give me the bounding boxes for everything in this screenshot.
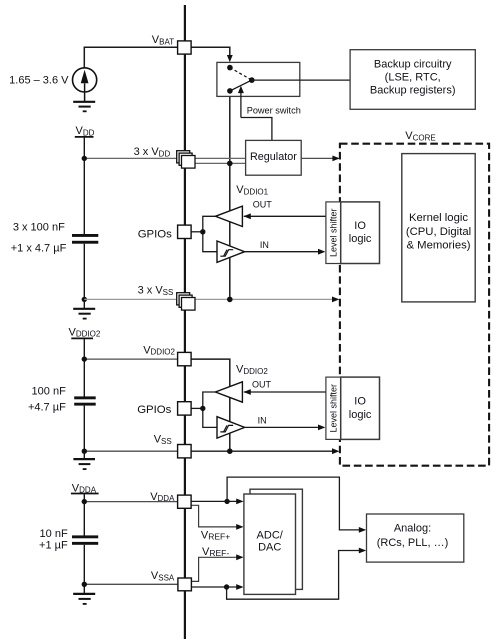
svg-text:VSSA: VSSA [151, 570, 175, 582]
arrowhead VSS into VCORE [332, 448, 339, 454]
wire VSSA to pin [84, 583, 178, 585]
wire VREF+ [191, 505, 238, 527]
ground below C2 [73, 459, 95, 469]
VDD rail down to capacitor [83, 137, 85, 234]
junction GPIO1 [200, 229, 205, 234]
svg-text:3 x VDD: 3 x VDD [134, 146, 171, 158]
svg-text:VBAT: VBAT [152, 34, 174, 46]
svg-text:Level shifter: Level shifter [329, 208, 339, 257]
svg-text:OUT: OUT [252, 379, 272, 389]
junction VDD rail [82, 156, 87, 161]
IO logic 1 box [341, 202, 380, 264]
svg-text:logic: logic [349, 233, 372, 245]
arrowhead OUT1 [243, 213, 250, 219]
wire OUT2 from level shifter [244, 391, 326, 393]
svg-text:(LSE, RTC,: (LSE, RTC, [385, 71, 441, 83]
junction VDDA bypass [224, 499, 229, 504]
svg-text:Backup registers): Backup registers) [370, 84, 456, 96]
svg-text:VSS: VSS [154, 434, 172, 446]
wire IN2 to level shifter [245, 426, 320, 428]
level shifter 1 box [326, 202, 341, 264]
VCORE dashed domain box [340, 144, 489, 466]
kernel logic box [402, 154, 475, 302]
wire VSSA pin to ADC [191, 586, 238, 588]
svg-text:Power switch: Power switch [247, 106, 301, 116]
svg-text:VREF-: VREF- [202, 546, 229, 558]
pin VSSA [178, 578, 192, 591]
junction VSSA bypass [224, 584, 229, 589]
arrowhead IN2 [318, 425, 325, 431]
svg-text:10 nF: 10 nF [40, 528, 68, 540]
voltage source 1.65-3.6 V [73, 68, 97, 102]
arrowhead VREF- into ADC [236, 554, 243, 560]
level shifter 2 box [326, 377, 341, 439]
ADC/DAC back box [250, 489, 302, 589]
regulator box [246, 140, 302, 175]
junction rail VSS [227, 297, 233, 303]
svg-text:IN: IN [258, 416, 267, 426]
svg-text:ADC/: ADC/ [257, 529, 284, 541]
analog box [367, 514, 464, 562]
svg-text:100 nF: 100 nF [32, 386, 67, 398]
svg-text:IN: IN [260, 240, 269, 250]
bypass wire VDDA to analog [227, 477, 360, 530]
svg-text:DAC: DAC [258, 542, 281, 554]
wire VSS to pin [84, 450, 177, 452]
svg-text:IO: IO [354, 220, 366, 232]
ground below C3 [73, 594, 95, 604]
svg-text:logic: logic [349, 409, 372, 421]
3xVDD doubled wire lower to regulator [195, 162, 245, 164]
svg-text:Regulator: Regulator [250, 151, 297, 163]
capacitor C1 3x100nF+4.7uF plates [72, 234, 98, 244]
power switch control arrow [238, 86, 244, 118]
capacitor C2 100nF+4.7uF plates [74, 396, 96, 405]
svg-text:GPIOs: GPIOs [138, 228, 172, 240]
wire VBAT pin to power switch [191, 47, 230, 56]
node VDDA bar [71, 493, 99, 495]
rail capacitor to ground [83, 244, 85, 309]
buffer OUT2 triangle [215, 382, 242, 402]
ADC/DAC front box [244, 494, 296, 594]
junction 3xVSS [82, 297, 87, 302]
arrowhead 3xVSS into VCORE [332, 297, 339, 303]
node VDD bar [75, 136, 94, 138]
svg-text:VDDIO2: VDDIO2 [69, 326, 101, 338]
arrowhead into analog top [359, 527, 366, 533]
wire OUT1 from level shifter [244, 215, 326, 217]
rail from power switch through VDDIO1 buffers to VSS [229, 96, 231, 299]
wire VREF- [191, 557, 238, 581]
svg-text:& Memories): & Memories) [406, 240, 470, 252]
rail C3 to ground [83, 545, 85, 594]
junction rail on lower VDD wire [227, 161, 233, 167]
svg-text:VREF+: VREF+ [201, 530, 230, 542]
svg-text:+4.7 µF: +4.7 µF [28, 401, 66, 413]
chip boundary vertical line [184, 5, 186, 639]
VDDA rail down [83, 494, 85, 536]
svg-text:VDDIO2: VDDIO2 [236, 363, 268, 375]
pin stack 3xVDD [177, 151, 195, 168]
svg-text:VCORE: VCORE [405, 130, 435, 142]
arrowhead VDDA into ADC [236, 499, 243, 505]
backup circuitry box [350, 50, 475, 110]
bypass wire VSSA to analog [227, 551, 361, 600]
junction GPIO2 [200, 406, 205, 411]
node VDDIO2 bar [71, 337, 93, 339]
svg-text:3 x 100 nF: 3 x 100 nF [13, 222, 65, 234]
svg-text:OUT: OUT [253, 200, 272, 210]
pin VBAT [178, 41, 192, 54]
wire power switch to backup circuitry [252, 79, 350, 81]
svg-text:VDD: VDD [76, 125, 95, 137]
junction VDDIO2 [82, 356, 87, 361]
svg-text:+1 x 4.7 µF: +1 x 4.7 µF [11, 243, 67, 255]
junction VSS [82, 449, 87, 454]
power switch control wire to regulator [241, 118, 272, 141]
wire GPIO2 pin to buffers [191, 407, 203, 409]
svg-text:(RCs, PLL, …): (RCs, PLL, …) [377, 537, 449, 549]
pin VDDA [178, 495, 192, 508]
wire GPIO1 pin to buffers [191, 231, 203, 233]
3xVSS wire left [84, 298, 178, 300]
wire regulator to kernel logic [301, 157, 333, 159]
svg-text:Kernel logic: Kernel logic [409, 212, 468, 224]
pin GPIOs 1 [178, 225, 192, 238]
svg-text:VDDIO1: VDDIO1 [236, 184, 268, 196]
svg-text:GPIOs: GPIOs [137, 404, 171, 416]
wire VDDA pin to ADC [191, 500, 238, 502]
wire VBAT from source to pin [84, 47, 177, 68]
buffer IN1 schmitt triangle [217, 241, 245, 262]
pin VDDIO2 [178, 352, 192, 365]
svg-text:VDDIO2: VDDIO2 [143, 344, 175, 356]
VSS wire right to VCORE [191, 450, 334, 452]
arrowhead OUT2 [243, 389, 250, 395]
ground below source [73, 102, 95, 112]
junction VDDA [82, 499, 87, 504]
junction VSSA [82, 582, 87, 587]
pin GPIOs 2 [178, 402, 192, 415]
arrowhead VSSA into ADC [236, 584, 243, 590]
3xVDD doubled wire upper to regulator [195, 157, 245, 159]
svg-text:VDDA: VDDA [150, 491, 175, 503]
arrowhead into power switch top [227, 55, 233, 62]
wire VDDIO2 to pin [84, 358, 177, 360]
wire IN1 to level shifter [245, 251, 320, 253]
svg-text:IO: IO [354, 395, 366, 407]
wire VDD to pin stack [84, 157, 178, 159]
svg-text:3 x VSS: 3 x VSS [138, 285, 174, 297]
rail C2 to ground [83, 406, 85, 459]
capacitor C3 10nF+1uF plates [72, 535, 98, 544]
svg-text:Analog:: Analog: [394, 523, 431, 535]
svg-text:(CPU, Digital: (CPU, Digital [406, 226, 471, 238]
arrowhead into VCORE domain [332, 156, 339, 162]
arrowhead into analog bottom [359, 548, 366, 554]
svg-text:Backup circuitry: Backup circuitry [374, 58, 452, 70]
power switch box [217, 62, 300, 96]
GPIO2 loop wire [203, 392, 218, 427]
GPIO1 loop wire [203, 216, 218, 251]
svg-text:1.65 – 3.6 V: 1.65 – 3.6 V [9, 75, 69, 87]
VDDIO2 wire from pin and rail through buffers [191, 359, 230, 451]
arrowhead VREF+ into ADC [236, 524, 243, 530]
wire VDDA to pin [84, 501, 177, 503]
IO logic 2 box [341, 377, 380, 439]
VDDIO2 rail down [83, 338, 85, 396]
svg-text:Level shifter: Level shifter [329, 384, 339, 433]
junction VSS rail [227, 448, 233, 454]
pin VSS [178, 445, 192, 458]
buffer OUT1 triangle [215, 206, 242, 226]
svg-text:+1 µF: +1 µF [39, 540, 68, 552]
pin stack 3xVSS [177, 293, 195, 310]
buffer IN2 schmitt triangle [217, 417, 245, 438]
ground below C1 [73, 309, 95, 319]
arrowhead IN1 [318, 249, 325, 255]
3xVSS wire right [195, 298, 334, 300]
